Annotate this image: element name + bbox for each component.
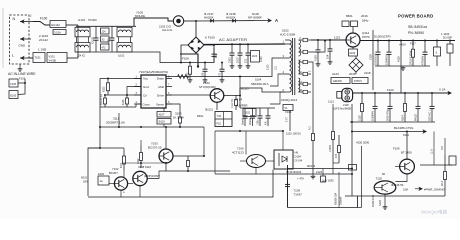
- svg-text:0103: 0103: [314, 55, 318, 61]
- svg-text:L: L: [12, 54, 14, 58]
- svg-text:473: 473: [335, 153, 338, 158]
- svg-text:2103: 2103: [252, 56, 258, 58]
- svg-text:1R0: 1R0: [83, 181, 88, 184]
- svg-text:IL102: IL102: [118, 55, 125, 58]
- svg-text:224 X2: 224 X2: [77, 55, 86, 58]
- svg-text:H6Q0X: H6Q0X: [204, 15, 214, 19]
- svg-text:N: N: [13, 17, 16, 21]
- svg-text:GND: GND: [19, 44, 27, 48]
- svg-text:HJC-5 50M: HJC-5 50M: [280, 33, 296, 37]
- svg-text:10M: 10M: [403, 188, 408, 191]
- svg-text:6112: 6112: [103, 86, 106, 92]
- svg-text:61F5 Na 860B: 61F5 Na 860B: [333, 107, 351, 111]
- svg-text:8601: 8601: [346, 14, 353, 18]
- svg-text:F111 7D: F111 7D: [231, 99, 234, 108]
- svg-text:Φ630V 334: Φ630V 334: [335, 192, 338, 205]
- svg-text:2103: 2103: [267, 64, 270, 70]
- svg-text:H6Q0X: H6Q0X: [226, 15, 236, 19]
- svg-text:B2XH-C L: B2XH-C L: [429, 109, 432, 121]
- svg-text:Φ4117: Φ4117: [415, 113, 418, 121]
- svg-text:Comp: Comp: [143, 102, 151, 106]
- svg-text:Φ2107 3R: Φ2107 3R: [100, 94, 103, 105]
- svg-text:DJ-50F: DJ-50F: [443, 36, 452, 40]
- svg-text:1121: 1121: [328, 100, 334, 104]
- svg-text:10μ: 10μ: [214, 53, 218, 58]
- svg-text:E106: E106: [98, 172, 105, 176]
- svg-text:Φ3136 50: Φ3136 50: [391, 183, 404, 187]
- svg-text:1734B: 1734B: [329, 145, 332, 152]
- svg-text:-1: -1: [435, 50, 438, 54]
- svg-text:2118: 2118: [368, 54, 372, 60]
- svg-text:F100: F100: [40, 17, 47, 21]
- svg-text:Y472: Y472: [108, 38, 111, 44]
- svg-text:E100: E100: [10, 94, 16, 97]
- svg-text:POWER BOARD: POWER BOARD: [398, 14, 433, 19]
- svg-text:Φ2121: Φ2121: [205, 108, 214, 112]
- svg-text:121: 121: [245, 58, 248, 63]
- svg-text:121: 121: [274, 65, 277, 70]
- svg-text:105/6MV: 105/6MV: [372, 111, 375, 121]
- svg-text:A100: A100: [349, 52, 355, 55]
- svg-text:0mm3: 0mm3: [249, 118, 252, 125]
- svg-text:Φ2132: Φ2132: [307, 164, 316, 168]
- svg-text:1000/10W: 1000/10W: [375, 53, 378, 65]
- svg-text:Drain: Drain: [157, 77, 165, 81]
- svg-text:6114: 6114: [403, 133, 409, 137]
- svg-text:2118: 2118: [359, 115, 362, 121]
- svg-text:AC ADAPTER: AC ADAPTER: [219, 37, 247, 42]
- svg-text:11-0: 11-0: [430, 149, 433, 154]
- svg-text:200mW: 200mW: [340, 196, 343, 205]
- svg-text:5104: 5104: [255, 78, 262, 82]
- svg-text:4118: 4118: [396, 56, 400, 62]
- svg-text:2C142: 2C142: [39, 38, 48, 42]
- svg-text:(EXP)CONV: (EXP)CONV: [144, 174, 160, 178]
- svg-text:16 4: 16 4: [441, 181, 444, 186]
- svg-text:Gnd: Gnd: [143, 85, 149, 89]
- svg-text:A: A: [275, 18, 278, 23]
- svg-text:470/16V: 470/16V: [422, 55, 425, 65]
- svg-text:V101: V101: [49, 55, 56, 59]
- svg-text:AC IN-LINE WIRE: AC IN-LINE WIRE: [8, 72, 36, 76]
- svg-text:Vcc: Vcc: [143, 77, 149, 81]
- svg-text:D100X(CFP): D100X(CFP): [374, 35, 391, 39]
- svg-text:CN 04: CN 04: [295, 159, 303, 163]
- svg-text:H6: H6: [295, 151, 299, 155]
- svg-text:N114: N114: [402, 115, 405, 121]
- svg-text:2000SR7 1.6A: 2000SR7 1.6A: [106, 121, 125, 125]
- svg-text:Φ110: Φ110: [159, 120, 166, 124]
- svg-text:WenQnr电路: WenQnr电路: [421, 209, 448, 216]
- svg-text:BC337-25: BC337-25: [148, 146, 162, 150]
- svg-text:A123: A123: [332, 72, 339, 76]
- svg-text:2102: 2102: [245, 112, 251, 115]
- svg-text:6TPS: 6TPS: [362, 35, 370, 39]
- svg-text:F117: F117: [410, 41, 416, 45]
- svg-text:47u: 47u: [265, 120, 268, 125]
- svg-text:2123: 2123: [316, 170, 322, 174]
- svg-text:F10: F10: [217, 122, 222, 126]
- svg-text:NJM4: NJM4: [379, 199, 382, 206]
- svg-text:SB160D-09 A: SB160D-09 A: [251, 82, 269, 86]
- svg-text:+45V: +45V: [399, 42, 406, 46]
- svg-text:Sense: Sense: [156, 102, 164, 106]
- svg-text:Drive: Drive: [157, 94, 164, 98]
- svg-text:4150 2000: 4150 2000: [356, 140, 370, 144]
- svg-text:7107(EA)/5336A(P/N): 7107(EA)/5336A(P/N): [139, 70, 168, 74]
- svg-text:F10A: F10A: [182, 57, 189, 61]
- svg-text:2016: 2016: [361, 14, 368, 18]
- svg-text:A104: A104: [260, 56, 263, 62]
- svg-text:820s: 820s: [197, 114, 204, 118]
- svg-text:T118: T118: [376, 176, 383, 180]
- svg-text:2018: 2018: [349, 72, 356, 76]
- svg-text:3108 6110: 3108 6110: [138, 165, 151, 169]
- svg-text:2118: 2118: [364, 71, 371, 75]
- svg-text:+ 47K: + 47K: [297, 177, 304, 181]
- svg-text:15TKV: 15TKV: [354, 79, 362, 83]
- svg-text:1102 100/10: 1102 100/10: [286, 132, 301, 136]
- svg-text:F120: F120: [387, 88, 394, 92]
- svg-text:IL101: IL101: [78, 18, 86, 22]
- svg-text:STU(N)C302: STU(N)C302: [199, 85, 216, 89]
- svg-text:K F100: K F100: [205, 36, 215, 40]
- svg-text:Φ119 Φ2123: Φ119 Φ2123: [286, 170, 302, 174]
- svg-text:SB: 84931xx: SB: 84931xx: [408, 25, 428, 29]
- svg-text:BC307: BC307: [109, 171, 118, 175]
- svg-text:GU142: GU142: [51, 23, 60, 27]
- svg-text:T1437: T1437: [294, 193, 303, 197]
- svg-text:2R15 B1/2W: 2R15 B1/2W: [410, 50, 413, 65]
- svg-text:1123: 1123: [334, 36, 340, 40]
- svg-text:JUMPER: JUMPER: [236, 104, 248, 108]
- svg-text:1B4y: 1B4y: [362, 19, 369, 23]
- svg-text:4107: 4107: [159, 113, 165, 117]
- svg-text:T101: T101: [35, 56, 42, 60]
- svg-text:NP-G800F: NP-G800F: [248, 15, 262, 19]
- svg-text:4CT1123: 4CT1123: [232, 151, 244, 155]
- svg-text:6105: 6105: [122, 99, 125, 105]
- svg-text:50: 50: [382, 172, 386, 176]
- svg-text:224: 224: [102, 30, 107, 33]
- svg-text:Δ3F0W: Δ3F0W: [333, 79, 342, 83]
- svg-text:TF10M: TF10M: [88, 18, 97, 22]
- svg-text:3.15A: 3.15A: [54, 31, 61, 35]
- svg-text:CH-0.4L: CH-0.4L: [162, 28, 173, 32]
- svg-text:V104: V104: [285, 110, 292, 114]
- svg-text:104: 104: [326, 54, 330, 59]
- svg-text:#PWR_SAVING: #PWR_SAVING: [424, 188, 445, 192]
- svg-text:Mult: Mult: [158, 85, 164, 89]
- svg-text:1a: 1a: [100, 179, 104, 183]
- svg-text:135/400V: 135/400V: [386, 54, 389, 65]
- svg-text:3102Q-2614: 3102Q-2614: [281, 98, 297, 102]
- svg-text:Φ165 X164: Φ165 X164: [372, 194, 375, 207]
- svg-text:BT 1459: BT 1459: [401, 150, 412, 154]
- svg-text:2009 470μ: 2009 470μ: [387, 109, 390, 121]
- svg-text:Ctl: Ctl: [143, 94, 147, 98]
- svg-text:PN: 84950: PN: 84950: [408, 31, 424, 35]
- svg-text:U 2A: U 2A: [439, 88, 445, 92]
- svg-text:Φ1103: Φ1103: [241, 87, 249, 91]
- svg-text:3mm3: 3mm3: [242, 118, 245, 125]
- svg-text:+: +: [123, 191, 125, 195]
- svg-text:2 07: 2 07: [286, 117, 289, 122]
- svg-text:BLK286-CTRL: BLK286-CTRL: [394, 126, 414, 130]
- svg-text:D104: D104: [295, 155, 302, 159]
- svg-text:1103: 1103: [237, 57, 240, 63]
- svg-text:F109: F109: [393, 146, 400, 150]
- svg-text:2103: 2103: [229, 57, 232, 63]
- svg-text:1 1/85: 1 1/85: [38, 48, 47, 52]
- svg-text:N 2: N 2: [308, 126, 311, 130]
- svg-text:61 6: 61 6: [120, 163, 123, 168]
- svg-text:V4.5B: V4.5B: [49, 58, 57, 62]
- svg-text:X2102: X2102: [92, 36, 95, 44]
- svg-text:100u: 100u: [257, 119, 260, 125]
- svg-text:Φ115: Φ115: [81, 177, 88, 180]
- svg-text:Y10: Y10: [217, 114, 222, 118]
- svg-text:472: 472: [102, 46, 107, 49]
- svg-text:F105: F105: [10, 83, 16, 86]
- svg-text:MOLDE: MOLDE: [135, 14, 145, 18]
- svg-text:17 1/4: 17 1/4: [235, 98, 243, 102]
